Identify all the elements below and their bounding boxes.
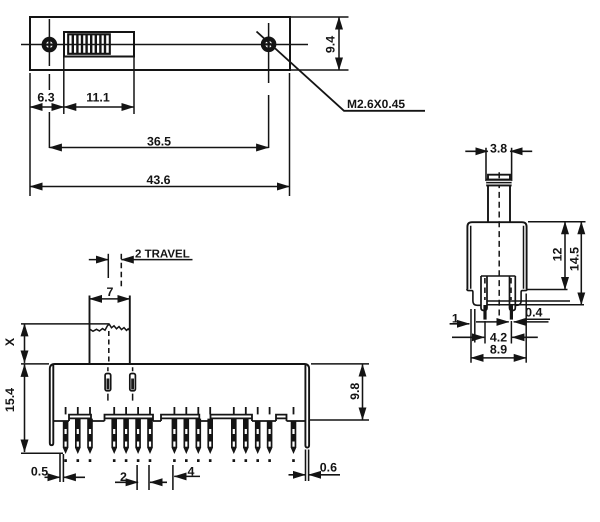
knob outer rectangle (top view): [64, 32, 134, 57]
svg-text:X: X: [3, 337, 17, 346]
dimension 8.9: [525, 294, 527, 363]
side terminal pins: [483, 305, 486, 320]
leader M2.6X0.45: [257, 32, 426, 111]
ledge: [481, 275, 515, 277]
svg-text:15.4: 15.4: [3, 388, 17, 412]
terminal pin 12: [231, 407, 237, 462]
svg-text:11.1: 11.1: [86, 91, 110, 105]
cap body: [467, 222, 526, 289]
extension lines near 1: [471, 309, 475, 363]
dimension 43.6: [30, 186, 290, 188]
svg-text:43.6: 43.6: [146, 173, 170, 187]
contact 1 inside body: [105, 367, 111, 400]
contact 2 inside body: [130, 367, 136, 400]
svg-text:2: 2: [120, 470, 127, 484]
extension lines 9.8: [309, 364, 369, 420]
hidden terminal dashed lines: [485, 278, 511, 300]
dimension 12: [564, 222, 566, 290]
dimension 3.8: [465, 150, 488, 152]
terminal pin 10: [196, 407, 202, 462]
extension line bracket left edge: [29, 73, 31, 196]
slider serration hatch: [73, 34, 105, 54]
dimension 9.4: [338, 17, 340, 70]
base tab 3: [161, 415, 199, 421]
stem ribs: [486, 179, 511, 187]
svg-text:36.5: 36.5: [147, 134, 171, 148]
right mounting hole: [263, 39, 274, 50]
base tab 5: [276, 415, 287, 421]
svg-text:9.8: 9.8: [348, 383, 362, 400]
actuator stem: [488, 175, 510, 222]
extension line knob left edge: [63, 57, 65, 115]
dimension X: [24, 324, 26, 363]
base tab 2: [105, 415, 154, 421]
base plate 0.4 lines: [487, 301, 584, 305]
dimension 15.4: [24, 364, 26, 452]
reference line cap top: [528, 221, 586, 223]
terminal pin 4: [111, 407, 117, 462]
dimension 2: [137, 465, 149, 490]
knob (front view) sides: [90, 296, 130, 365]
svg-text:9.4: 9.4: [324, 36, 338, 53]
dimension 0.6: [306, 450, 309, 482]
extension lines 3.8: [486, 148, 512, 181]
base tab 1: [69, 415, 91, 421]
right leg: [510, 276, 516, 311]
dimension 4.2: [485, 321, 511, 344]
body outline with side walls: [50, 364, 309, 448]
terminal pin 11: [207, 407, 213, 462]
knob wavy break line: [90, 324, 130, 331]
bracket plate outline: [30, 17, 290, 70]
right hole vertical centerline: [268, 23, 270, 148]
travel arrows: [89, 259, 109, 261]
terminal pin 13: [243, 407, 249, 462]
extension line knob top (X): [21, 323, 109, 325]
svg-text:2 TRAVEL: 2 TRAVEL: [135, 249, 190, 261]
extension line knob right edge: [133, 57, 135, 115]
left hole vertical centerline: [48, 19, 50, 148]
dimension 4: [172, 465, 174, 490]
reference line cap bottom: [528, 289, 568, 291]
terminal pin 1: [63, 407, 69, 462]
svg-text:6.3: 6.3: [37, 91, 54, 105]
terminal pin 6: [135, 407, 141, 462]
svg-text:14.5: 14.5: [567, 247, 581, 271]
knob dashed centerline: [108, 331, 110, 364]
svg-text:7: 7: [107, 285, 114, 299]
travel position solid mark: [107, 254, 109, 278]
dimension 11.1: [64, 106, 134, 108]
dimension 0.5: [60, 454, 63, 482]
terminal pin 14: [255, 407, 261, 462]
right skirt step: [515, 289, 527, 305]
knob serrated slider (top view): [68, 34, 110, 54]
terminal pin 9: [184, 407, 190, 462]
left mounting hole: [44, 39, 55, 50]
terminal pin 15: [267, 407, 273, 462]
svg-text:3.8: 3.8: [490, 141, 507, 155]
terminal pin 7: [147, 407, 153, 462]
terminal pin 5: [123, 407, 129, 462]
svg-text:8.9: 8.9: [490, 343, 507, 357]
terminal pin 8: [172, 407, 178, 462]
base profile line: [53, 420, 305, 422]
terminal pin 3: [87, 407, 93, 462]
svg-text:12: 12: [551, 248, 565, 262]
base tab 4: [211, 415, 253, 421]
terminal pin 16: [291, 407, 297, 462]
svg-text:0.4: 0.4: [525, 306, 542, 320]
left skirt step: [467, 289, 481, 305]
svg-text:M2.6X0.45: M2.6X0.45: [347, 97, 405, 111]
left leg: [481, 276, 487, 311]
terminal pin 2: [75, 407, 81, 462]
svg-text:0.5: 0.5: [31, 465, 48, 479]
dimension 36.5: [49, 147, 268, 149]
extension line bracket right edge: [289, 73, 291, 196]
cap inner walls: [471, 226, 524, 289]
extension line body top left: [21, 363, 49, 365]
extension lines 9.4: [290, 17, 349, 70]
svg-text:0.6: 0.6: [320, 461, 337, 475]
dimension 14.5: [580, 222, 582, 305]
dimension 9.8: [362, 364, 364, 420]
dimension 6.3: [30, 106, 64, 108]
centerline through holes: [21, 44, 308, 46]
extension line pin tips (15.4): [21, 452, 63, 454]
dimension 7: [90, 298, 130, 300]
svg-text:4: 4: [188, 464, 195, 478]
dashed vertical centerline: [498, 172, 500, 318]
travel position dashed mark: [120, 254, 122, 287]
